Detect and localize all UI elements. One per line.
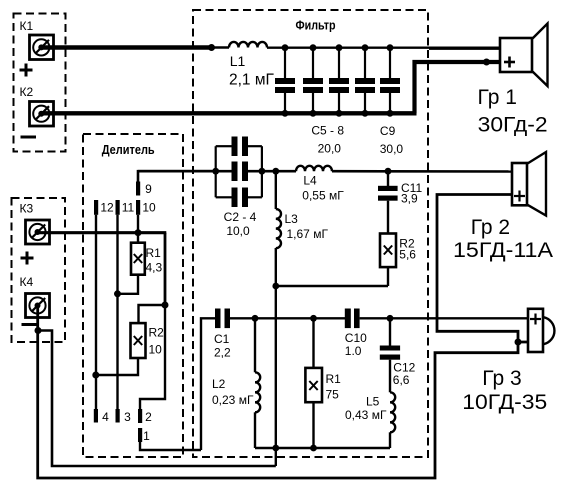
mid-band wire from divider contact 9 to Гр2	[138, 170, 232, 173]
X mark resistor R1 divider	[134, 254, 142, 263]
switch contact 10	[136, 200, 140, 233]
capacitor C7	[329, 44, 349, 116]
terminal K1	[30, 35, 54, 60]
svg-text:1,67 мГ: 1,67 мГ	[287, 227, 329, 241]
wire K1 to node A (thick)	[40, 45, 212, 49]
switch contact 3	[116, 409, 120, 423]
svg-text:2,1 мГ: 2,1 мГ	[229, 71, 275, 88]
node C11 junction dot	[385, 168, 392, 175]
node C12 junction dot	[387, 315, 394, 322]
tweeter wire (C1 input rail)	[201, 318, 215, 450]
svg-text:С5 - 8: С5 - 8	[311, 124, 344, 138]
svg-text:3,9: 3,9	[401, 192, 418, 206]
capacitor C5	[275, 44, 295, 116]
plus sign K3	[21, 252, 34, 265]
svg-text:10ГД-35: 10ГД-35	[462, 391, 547, 414]
junction dot on Гр1 return	[483, 59, 490, 66]
resistor R1 (75)	[305, 318, 322, 448]
switch contact 2	[138, 305, 165, 423]
svg-text:15ГД-11А: 15ГД-11А	[453, 239, 553, 262]
svg-text:11: 11	[122, 201, 135, 215]
speaker Гр2	[512, 152, 546, 216]
svg-text:Гр 3: Гр 3	[482, 367, 521, 390]
capacitor C6	[303, 44, 323, 116]
speaker Гр1	[500, 24, 548, 87]
junction dot R1 divider top	[135, 229, 142, 236]
wire C1 to C10	[230, 317, 345, 319]
capacitor C9	[380, 44, 400, 116]
svg-text:К1: К1	[20, 19, 34, 33]
input terminal block K3/K4 dashed box	[12, 198, 66, 342]
wire Гр2 return	[437, 195, 528, 343]
wire K3 corner down to node	[164, 233, 167, 305]
svg-text:К3: К3	[20, 202, 34, 216]
divider (Делитель) dashed box	[83, 134, 183, 457]
svg-text:L3: L3	[285, 212, 299, 226]
svg-text:2: 2	[145, 410, 152, 424]
X mark resistor R2 divider	[134, 336, 142, 345]
wire C10 to Гр3 plus	[360, 317, 528, 319]
svg-text:Гр 2: Гр 2	[471, 216, 510, 239]
capacitor block C2-4	[212, 137, 265, 208]
switch contact 1	[138, 428, 201, 450]
svg-text:4,3: 4,3	[146, 261, 163, 275]
junction dot contact4 line/R2	[92, 372, 99, 379]
input terminal block K1/K2 dashed box	[14, 14, 66, 152]
plus sign K1	[20, 64, 33, 77]
filter (Фильтр) dashed box	[193, 10, 428, 457]
svg-text:L2: L2	[212, 377, 226, 391]
capacitor C12	[380, 318, 400, 359]
svg-text:Гр 1: Гр 1	[478, 86, 517, 109]
resistor R2 (5,6)	[276, 234, 396, 287]
svg-text:4: 4	[102, 410, 109, 424]
node L3 junction dot	[272, 168, 279, 175]
svg-text:1: 1	[143, 429, 150, 443]
terminal K4	[26, 294, 50, 318]
svg-text:Делитель: Делитель	[102, 142, 155, 157]
svg-text:L5: L5	[366, 395, 380, 409]
inductor L1	[229, 42, 267, 48]
minus sign K4	[22, 323, 38, 326]
svg-text:R1: R1	[146, 246, 162, 260]
wire top bus to speaker Гр1 plus	[429, 47, 500, 50]
svg-text:20,0: 20,0	[318, 142, 342, 156]
X mark resistor R1 filter	[309, 381, 317, 390]
wire K3 to divider	[37, 231, 167, 234]
resistor R1 divider (4,3)	[118, 233, 145, 294]
svg-text:C1: C1	[214, 332, 230, 346]
svg-text:L1: L1	[230, 53, 246, 69]
svg-text:2,2: 2,2	[214, 346, 231, 360]
minus bus via x=52 to tweeter rail	[38, 331, 276, 467]
X mark resistor R2 filter	[384, 246, 392, 255]
svg-text:5,6: 5,6	[399, 248, 416, 262]
inductor L3 (vertical)	[276, 171, 281, 466]
svg-text:0,43 мГ: 0,43 мГ	[345, 408, 387, 422]
switch contact 4	[94, 409, 98, 423]
node A junction dot	[208, 44, 215, 51]
junction dot rail/L3 column	[272, 445, 279, 452]
junction dot contact11/R1	[114, 290, 121, 297]
wire K2 bottom bus (thick)	[40, 111, 417, 115]
wire Гр1 return (thick)	[415, 62, 501, 113]
capacitor C8	[355, 44, 375, 116]
svg-text:К2: К2	[20, 85, 34, 99]
svg-text:10,0: 10,0	[226, 224, 250, 238]
svg-text:9: 9	[145, 182, 152, 196]
svg-text:Фильтр: Фильтр	[296, 18, 336, 33]
svg-text:R2: R2	[149, 326, 165, 340]
svg-text:6,6: 6,6	[393, 373, 410, 387]
svg-text:10: 10	[149, 343, 163, 357]
svg-text:12: 12	[100, 201, 114, 215]
junction dot K4	[35, 327, 42, 334]
wire node A to L1	[211, 46, 229, 48]
svg-text:К4: К4	[20, 275, 34, 289]
terminal K3	[26, 220, 50, 244]
wire L1 to capacitor bank top bus	[267, 47, 430, 49]
speaker Гр3 (tweeter)	[528, 309, 554, 352]
ground/minus return bus from K4 (lower)	[38, 306, 518, 479]
minus sign K2	[21, 136, 37, 139]
node L2 junction dot	[252, 315, 259, 322]
svg-text:75: 75	[326, 388, 340, 402]
svg-text:R1: R1	[326, 372, 342, 386]
capacitor C10	[345, 309, 360, 329]
svg-text:1.0: 1.0	[345, 344, 362, 358]
svg-text:С2 - 4: С2 - 4	[224, 210, 257, 224]
svg-text:30Гд-2: 30Гд-2	[478, 113, 548, 136]
junction dot rail/R1	[310, 445, 317, 452]
node junction dot L3 bottom	[272, 283, 279, 290]
svg-text:С9: С9	[380, 124, 396, 138]
inductor L2 (vertical)	[255, 318, 260, 448]
inductor L5 (vertical)	[390, 360, 395, 448]
terminal K2	[30, 102, 54, 127]
svg-text:0,23 мГ: 0,23 мГ	[212, 393, 254, 407]
capacitor C1	[215, 309, 230, 329]
resistor R2 divider (10)	[96, 305, 165, 375]
svg-text:L4: L4	[303, 174, 317, 188]
capacitor C11	[378, 171, 398, 233]
node R1 junction dot	[310, 315, 317, 322]
svg-text:10: 10	[142, 201, 156, 215]
svg-text:3: 3	[124, 410, 131, 424]
inductor L4	[296, 166, 332, 171]
switch contact 11	[116, 200, 120, 410]
junction node dot	[162, 302, 169, 309]
svg-text:0,55 мГ: 0,55 мГ	[302, 189, 344, 203]
switch contact 12	[94, 200, 98, 410]
switch contact 9	[136, 171, 216, 195]
svg-text:30,0: 30,0	[380, 142, 404, 156]
tweeter filter bottom rail	[255, 447, 390, 450]
junction dot at Гр3 minus	[515, 339, 522, 346]
